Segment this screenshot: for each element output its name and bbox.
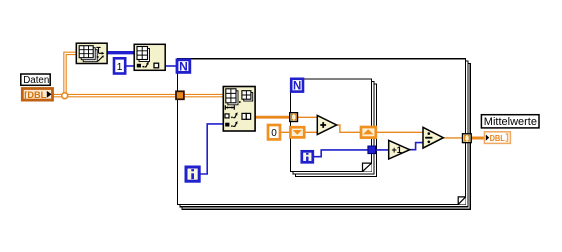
svg-text:DBL: DBL [490, 133, 505, 143]
svg-text:Daten: Daten [23, 75, 49, 86]
svg-text:N: N [293, 81, 301, 93]
svg-text:N: N [179, 60, 188, 74]
svg-text:Mittelwerte: Mittelwerte [484, 116, 537, 128]
svg-text:0: 0 [271, 128, 277, 139]
svg-text:[DBL: [DBL [24, 90, 46, 100]
svg-text:+1: +1 [391, 145, 401, 155]
svg-text:1: 1 [117, 61, 123, 73]
